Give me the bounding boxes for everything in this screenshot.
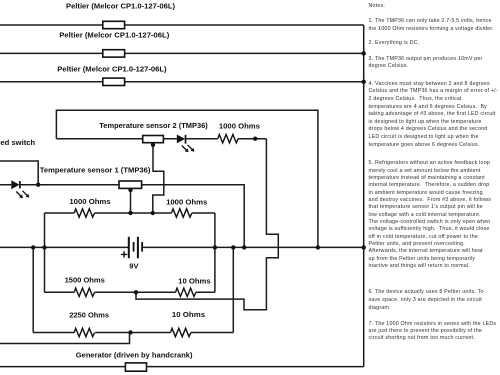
wire right bus [363, 25, 365, 367]
wire sensor2 loop (left edge, top edge, right edge down to battery) [56, 110, 318, 247]
svg-text:Temperature sensor 1 (TMP36): Temperature sensor 1 (TMP36) [40, 166, 151, 175]
peltier P1 box [103, 21, 125, 28]
svg-text:9V: 9V [129, 261, 138, 270]
svg-text:Peltier (Melcor CP1.0-127-06L): Peltier (Melcor CP1.0-127-06L) [57, 67, 166, 74]
peltier P2 box [103, 50, 125, 57]
svg-text:2250 Ohms: 2250 Ohms [69, 312, 109, 319]
resistor 1000 ohms sensor2 row [218, 135, 238, 143]
notes column [369, 3, 500, 10]
svg-text:Peltier (Melcor CP1.0-127-06L): Peltier (Melcor CP1.0-127-06L) [66, 4, 175, 11]
svg-text:1000 Ohms: 1000 Ohms [219, 123, 260, 130]
svg-text:10 Ohms: 10 Ohms [178, 278, 211, 285]
wire divider row [45, 212, 215, 214]
wire 1500 row [45, 291, 215, 293]
wire 2250 right vertical [232, 247, 234, 332]
resistor 1000 ohms divider left [74, 209, 94, 217]
wire TMP36-1 pin [130, 188, 132, 213]
LED D1 [11, 180, 29, 198]
wire 2250 left vertical [32, 247, 34, 332]
peltier P3 box [103, 78, 125, 85]
wire bottom stub row [0, 333, 130, 344]
resistor 10 ohms lower [171, 328, 191, 336]
wire divider left vertical [44, 213, 46, 292]
svg-text:Generator (driven by handcrank: Generator (driven by handcrank) [76, 350, 193, 359]
svg-text:1000 Ohms: 1000 Ohms [166, 199, 207, 206]
wire battery row [0, 246, 364, 248]
wire sensor2 branch path down to 1500 divider tap [136, 139, 278, 310]
wire switch row [0, 161, 38, 185]
TMP36 sensor2 box [143, 136, 164, 143]
generator box [125, 363, 146, 371]
svg-text:10 Ohms: 10 Ohms [172, 312, 205, 319]
wire 2250 row [33, 332, 233, 334]
wire TMP36-2 pin staircase [153, 143, 164, 213]
plus sign [121, 251, 127, 257]
resistor 1500 ohms [74, 288, 94, 296]
TMP36 sensor1 box [119, 181, 142, 188]
wire peltier row 2 [0, 52, 364, 54]
svg-text:Peltier (Melcor CP1.0-127-06L): Peltier (Melcor CP1.0-127-06L) [59, 32, 169, 39]
battery 9V [121, 237, 142, 258]
wire divider right vertical [214, 213, 216, 292]
resistor 2250 ohms [74, 328, 94, 336]
LED D2 [177, 135, 195, 153]
wire generator row [0, 366, 364, 368]
resistor 1000 ohms divider right [172, 209, 192, 217]
svg-text:1000 Ohms: 1000 Ohms [69, 199, 110, 206]
svg-text:Temperature sensor 2 (TMP36): Temperature sensor 2 (TMP36) [99, 121, 208, 130]
wire sensor1 row [0, 185, 244, 248]
resistor 10 ohms upper [176, 288, 196, 296]
wire peltier row 3 [0, 81, 364, 83]
svg-text:1500 Ohms: 1500 Ohms [65, 278, 105, 285]
wire sensor2 row [56, 138, 266, 140]
wire peltier row 1 [0, 24, 364, 26]
svg-text:ed switch: ed switch [0, 140, 35, 147]
